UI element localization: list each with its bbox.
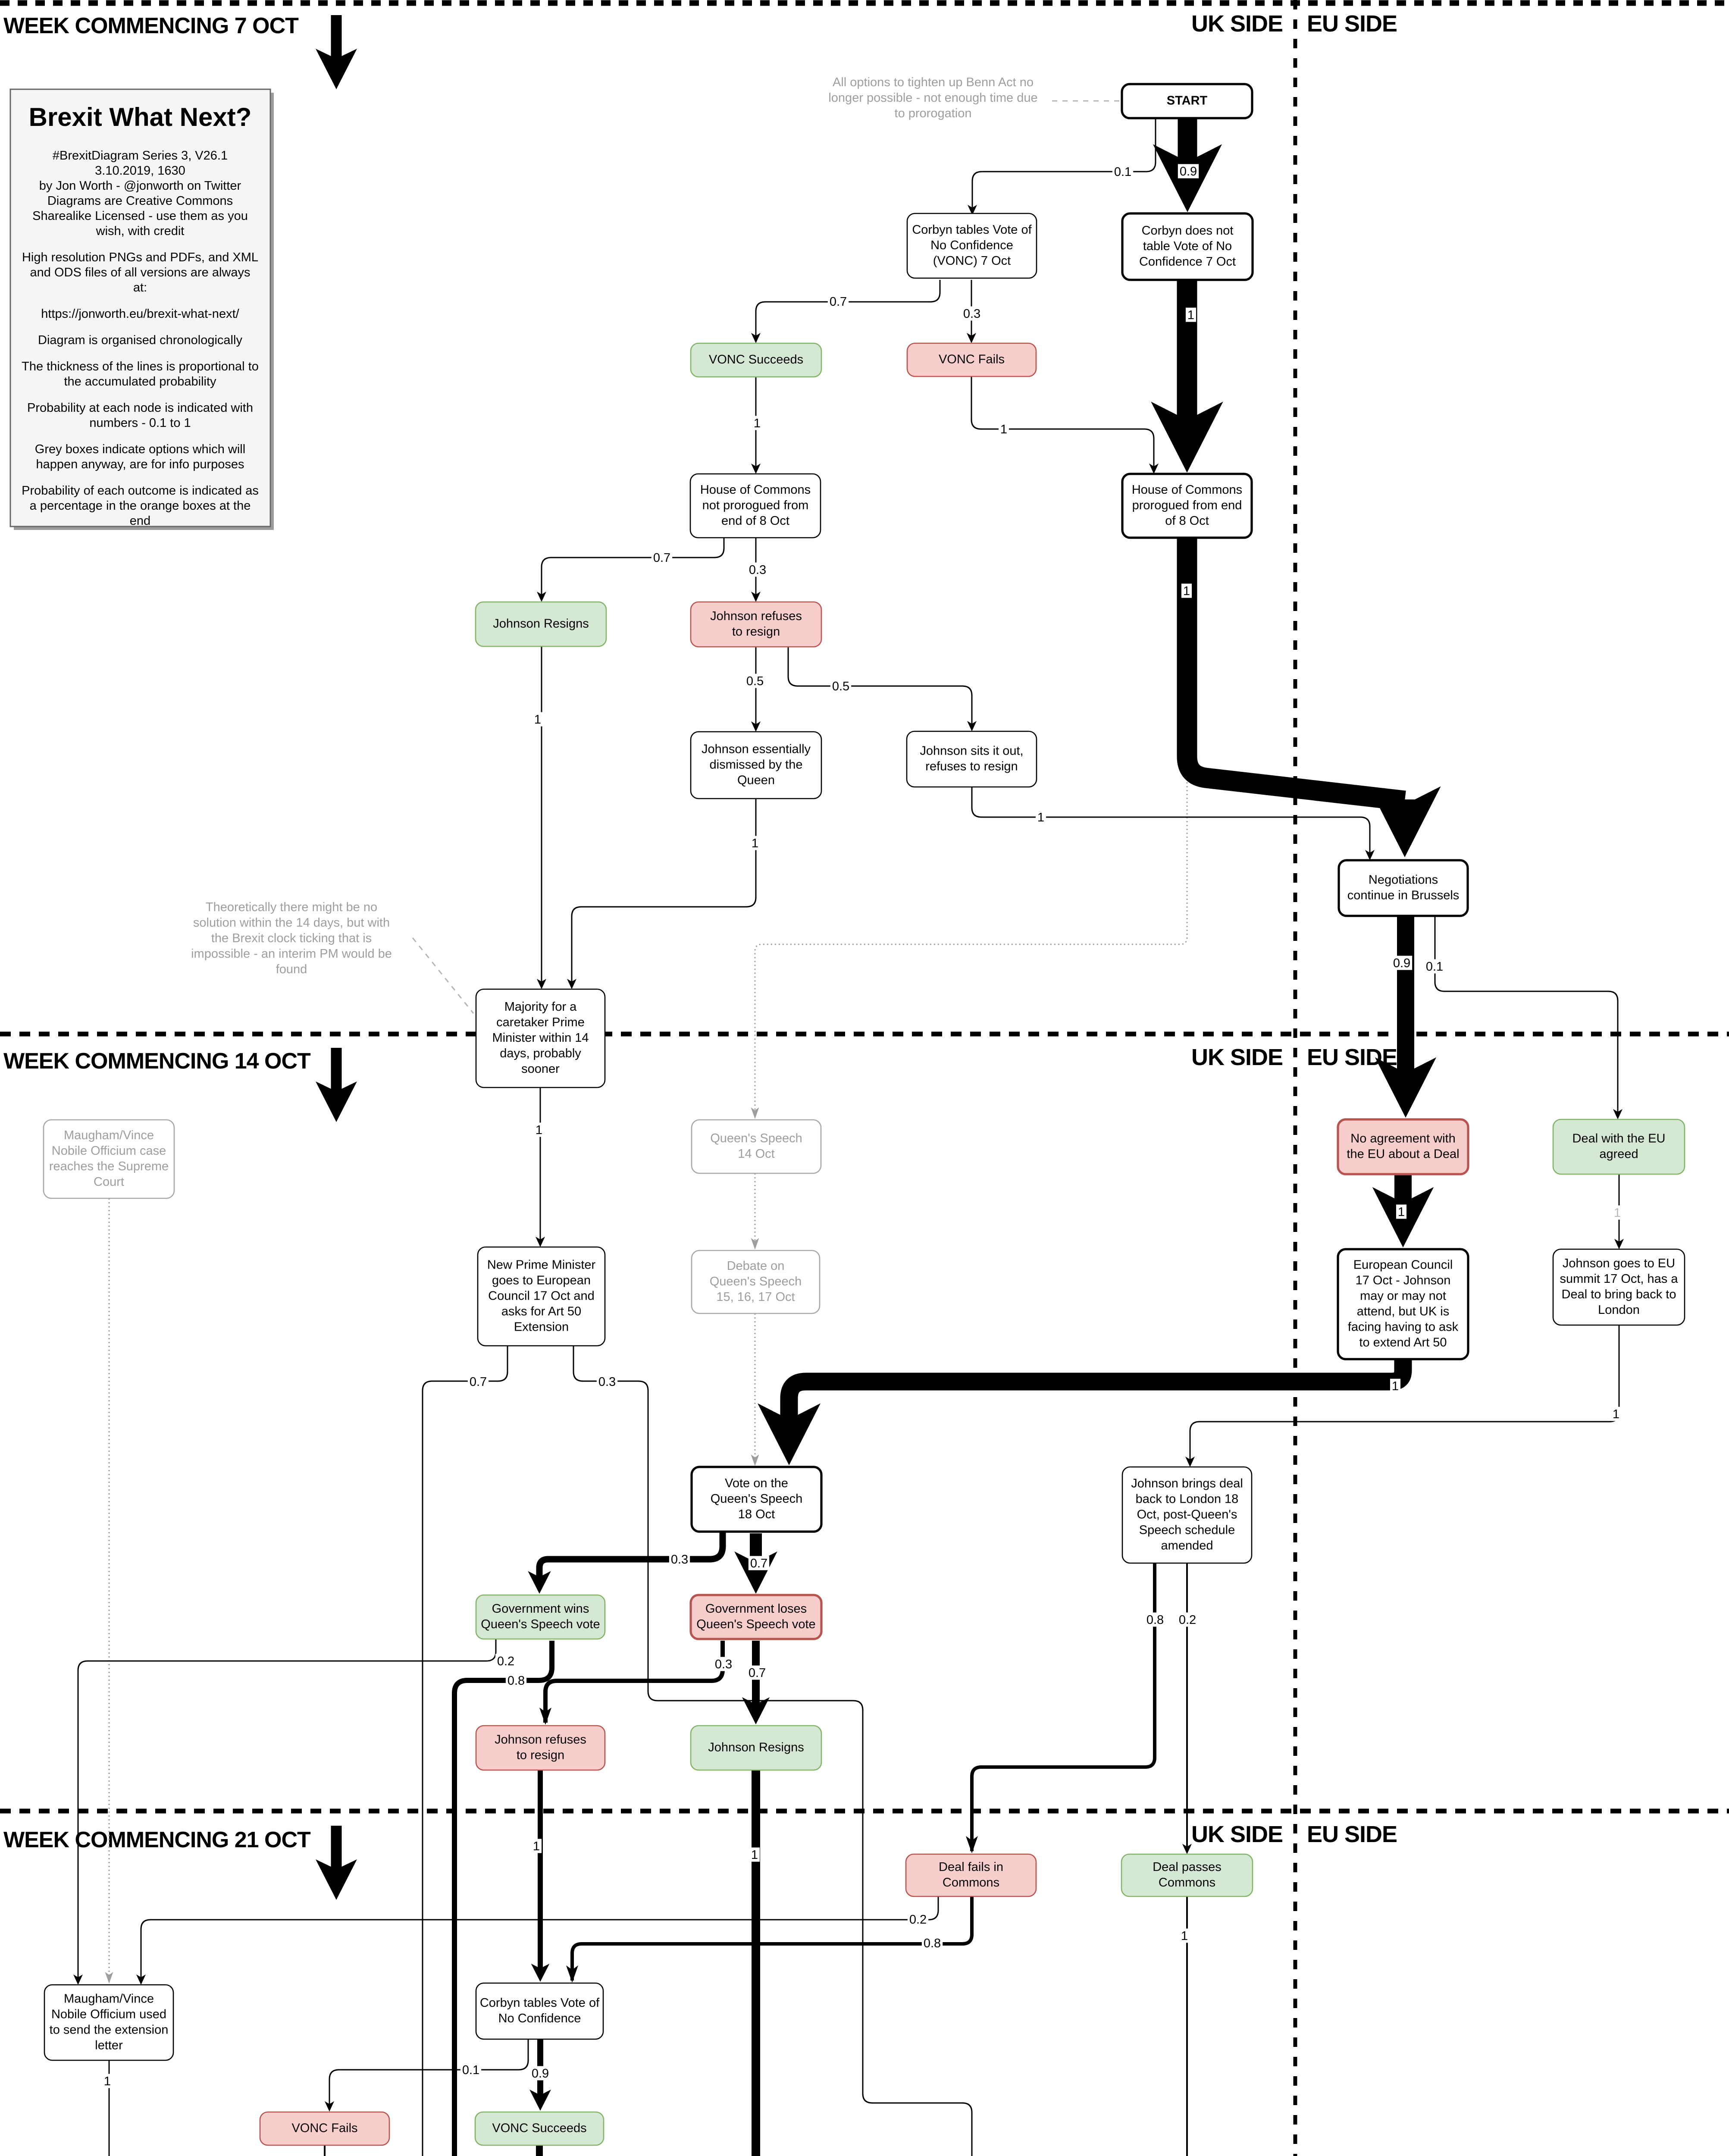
svg-text:at:: at: <box>133 281 147 295</box>
edge New PM -> Caretaker PM GE first (0.7) <box>423 1346 507 2156</box>
svg-text:Maugham/Vince: Maugham/Vince <box>64 1992 154 2006</box>
svg-text:VONC Succeeds: VONC Succeeds <box>709 353 803 367</box>
svg-text:Speech schedule: Speech schedule <box>1139 1523 1235 1537</box>
svg-text:0.7: 0.7 <box>470 1375 487 1389</box>
label 0.8 <box>506 1673 526 1688</box>
svg-text:UK SIDE: UK SIDE <box>1191 1044 1283 1070</box>
label 0.1 <box>1112 165 1133 179</box>
svg-text:1: 1 <box>1398 1205 1405 1219</box>
edge Corbyn tables 2 -> VONC Succeeds 2 (0.9) <box>529 2039 551 2111</box>
svg-text:sooner: sooner <box>521 1062 560 1076</box>
benn act dashed connector <box>1052 100 1121 102</box>
svg-text:amended: amended <box>1161 1539 1213 1553</box>
svg-text:happen anyway, are for info pu: happen anyway, are for info purposes <box>36 458 244 471</box>
node Debate on Queens Speech <box>692 1250 820 1313</box>
label 1 <box>1181 584 1192 599</box>
svg-text:goes to European: goes to European <box>492 1274 591 1288</box>
svg-text:WEEK COMMENCING 21 OCT: WEEK COMMENCING 21 OCT <box>3 1827 311 1852</box>
label 0.7 <box>747 1666 767 1680</box>
svg-text:prorogued from end: prorogued from end <box>1132 498 1242 512</box>
edge HoC prorogued -> Negotiations (1) <box>1187 538 1441 857</box>
big arrow 14 Oct <box>316 1048 357 1122</box>
node Johnson goes to EU summit <box>1553 1249 1685 1325</box>
svg-text:to extend Art 50: to extend Art 50 <box>1359 1336 1447 1350</box>
svg-text:0.2: 0.2 <box>497 1655 514 1668</box>
edge START -> Corbyn tables VONC (0.1) <box>972 118 1156 213</box>
edge Deal agreed -> Johnson goes to EU summit (1) <box>1619 1174 1620 1247</box>
svg-text:to prorogation: to prorogation <box>895 107 972 120</box>
svg-text:0.5: 0.5 <box>832 680 849 693</box>
svg-text:WEEK COMMENCING 7 OCT: WEEK COMMENCING 7 OCT <box>3 13 299 38</box>
svg-text:0.3: 0.3 <box>715 1658 732 1671</box>
node Corbyn tables VONC 7 Oct <box>907 213 1037 278</box>
node VONC Succeeds 1 <box>691 343 821 377</box>
edge VONC Fails -> HoC prorogued (1) <box>971 376 1154 472</box>
label 0.3 <box>669 1552 690 1567</box>
label 1 <box>1036 810 1046 825</box>
svg-text:and ODS files of all versions: and ODS files of all versions are always <box>30 266 251 279</box>
svg-text:Deal to bring back to: Deal to bring back to <box>1562 1288 1676 1301</box>
node Deal fails in Commons <box>906 1854 1036 1896</box>
svg-text:14 Oct: 14 Oct <box>738 1147 774 1161</box>
svg-text:1: 1 <box>533 1839 540 1853</box>
label 0.1 <box>1424 959 1445 974</box>
svg-text:0.1: 0.1 <box>1426 960 1443 974</box>
label 1 <box>102 2074 113 2089</box>
label 0.3 <box>597 1375 617 1389</box>
svg-text:impossible - an interim PM wou: impossible - an interim PM would be <box>191 947 392 961</box>
node Deal with the EU agreed <box>1553 1119 1685 1174</box>
svg-text:Government loses: Government loses <box>705 1602 807 1616</box>
svg-text:reaches the Supreme: reaches the Supreme <box>49 1159 169 1173</box>
label 0.2 <box>1177 1613 1198 1627</box>
svg-text:0.8: 0.8 <box>1146 1613 1164 1627</box>
node START <box>1122 84 1252 118</box>
edge dismissed by Queen -> Majority caretaker (1) <box>572 799 756 987</box>
edge VONC Succeeds 2 -> Caretaker admin (1) <box>527 2145 552 2156</box>
svg-text:numbers - 0.1 to 1: numbers - 0.1 to 1 <box>89 416 191 430</box>
node Government wins QS vote <box>476 1595 605 1639</box>
svg-text:Maugham/Vince: Maugham/Vince <box>64 1128 154 1142</box>
node VONC Fails 2 <box>260 2112 389 2145</box>
edge Government wins -> Maugham used (0.2) <box>78 1639 496 1983</box>
edge Johnson refuses -> dismissed by Queen (0.5) <box>755 647 757 730</box>
svg-text:the EU about a Deal: the EU about a Deal <box>1347 1147 1459 1161</box>
node VONC Succeeds 2 <box>475 2112 604 2145</box>
edge Negotiations -> No agreement (0.9) <box>1375 916 1436 1118</box>
svg-text:No Confidence: No Confidence <box>930 238 1013 252</box>
svg-text:Council 17 Oct and: Council 17 Oct and <box>488 1289 595 1303</box>
edge Johnson Resigns -> Majority caretaker (1) <box>541 646 542 987</box>
svg-text:letter: letter <box>95 2039 123 2053</box>
edge Johnson goes EU summit -> brings deal back (1) <box>1190 1325 1619 1465</box>
svg-text:Queen's Speech: Queen's Speech <box>711 1492 803 1506</box>
svg-text:Johnson goes to EU: Johnson goes to EU <box>1563 1257 1675 1270</box>
svg-text:0.9: 0.9 <box>532 2067 549 2081</box>
svg-text:House of Commons: House of Commons <box>700 483 811 497</box>
svg-text:18 Oct: 18 Oct <box>738 1507 775 1521</box>
svg-text:Extension: Extension <box>514 1320 569 1334</box>
svg-text:may or may not: may or may not <box>1360 1289 1446 1303</box>
svg-text:Debate on: Debate on <box>727 1259 785 1273</box>
svg-text:VONC Succeeds: VONC Succeeds <box>492 2122 586 2135</box>
label 1 <box>534 1123 544 1138</box>
edge HoC not prorogued -> Johnson refuses (0.3) <box>755 538 757 600</box>
svg-text:No agreement with: No agreement with <box>1350 1132 1455 1146</box>
svg-text:Brexit What Next?: Brexit What Next? <box>29 103 252 132</box>
svg-text:0.3: 0.3 <box>963 307 980 321</box>
svg-text:Theoretically there might be n: Theoretically there might be no <box>206 900 377 914</box>
label 1 <box>750 836 760 851</box>
note interim PM note <box>191 900 392 976</box>
svg-text:1: 1 <box>752 837 758 850</box>
svg-text:#BrexitDiagram Series 3, V26.1: #BrexitDiagram Series 3, V26.1 <box>53 149 228 163</box>
svg-text:VONC Fails: VONC Fails <box>291 2122 357 2135</box>
svg-text:1: 1 <box>754 417 761 430</box>
edge sits it out -> Negotiations (1) <box>972 787 1370 858</box>
svg-text:0.3: 0.3 <box>598 1375 616 1389</box>
svg-text:agreed: agreed <box>1599 1147 1638 1161</box>
svg-text:Queen's Speech vote: Queen's Speech vote <box>696 1617 815 1631</box>
svg-text:VONC Fails: VONC Fails <box>939 353 1005 367</box>
svg-text:Vote on the: Vote on the <box>725 1476 788 1490</box>
big arrow 21 Oct <box>316 1826 357 1900</box>
svg-text:The thickness of the lines is: The thickness of the lines is proportion… <box>22 360 259 373</box>
svg-text:1: 1 <box>104 2075 111 2088</box>
edge Deal fails -> Corbyn tables 2 (0.8) <box>572 1896 972 1981</box>
edge Vote QS -> Government loses (0.7) <box>734 1533 777 1594</box>
svg-text:START: START <box>1167 94 1208 108</box>
node Johnson refuses to resign 2 <box>476 1726 605 1770</box>
svg-text:UK SIDE: UK SIDE <box>1191 11 1283 37</box>
node Government loses QS vote <box>691 1595 821 1639</box>
svg-text:House of Commons: House of Commons <box>1132 483 1242 497</box>
svg-text:0.7: 0.7 <box>830 295 847 309</box>
svg-text:Corbyn does not: Corbyn does not <box>1142 224 1234 238</box>
svg-text:Johnson sits it out,: Johnson sits it out, <box>920 744 1023 758</box>
svg-text:0.7: 0.7 <box>653 551 670 565</box>
svg-text:solution within the 14 days, b: solution within the 14 days, but with <box>193 916 390 930</box>
dotted edge Maugham case -> Maugham used <box>109 1198 110 1981</box>
svg-text:1: 1 <box>1181 1929 1188 1943</box>
svg-text:0.5: 0.5 <box>746 674 764 688</box>
svg-text:1: 1 <box>1614 1206 1621 1220</box>
dotted edge House of Commons prorogued -> Queens Speech 14 Oct <box>755 538 1187 1117</box>
dotted edge Debate -> Vote on Queens Speech <box>755 1313 756 1464</box>
svg-text:caretaker Prime: caretaker Prime <box>496 1015 585 1029</box>
edge Deal passes -> Brexit with a Deal (1) <box>1186 1896 1188 2156</box>
label 1 <box>1390 1379 1400 1394</box>
edge European Council -> Vote on Queens Speech (1) <box>758 1359 1403 1465</box>
svg-text:Corbyn tables Vote of: Corbyn tables Vote of <box>912 223 1032 237</box>
svg-text:1: 1 <box>1183 584 1190 598</box>
svg-text:Corbyn tables Vote of: Corbyn tables Vote of <box>480 1996 600 2010</box>
edge Johnson brings deal -> Deal passes Commons (0.2) <box>1186 1563 1188 1852</box>
label 1 <box>531 1839 542 1854</box>
svg-text:UK SIDE: UK SIDE <box>1191 1821 1283 1847</box>
edge Johnson Resigns 2 -> Caretaker admin (1) <box>576 1770 756 2156</box>
label 0.8 <box>922 1936 943 1951</box>
node Maugham case reaches Supreme Court <box>44 1120 174 1198</box>
node Majority for caretaker PM <box>476 989 605 1087</box>
label 0.9 <box>1178 164 1199 179</box>
svg-text:Queen's Speech vote: Queen's Speech vote <box>481 1617 600 1631</box>
svg-text:1: 1 <box>1037 811 1044 824</box>
label 0.2 <box>495 1654 516 1669</box>
svg-text:longer possible - not enough t: longer possible - not enough time due <box>828 91 1037 105</box>
svg-text:the Brexit clock ticking that: the Brexit clock ticking that is <box>211 931 372 945</box>
node Johnson sits it out <box>907 731 1037 787</box>
svg-text:refuses to resign: refuses to resign <box>925 760 1018 774</box>
svg-text:Majority for a: Majority for a <box>504 1000 577 1014</box>
svg-text:0.1: 0.1 <box>1114 165 1131 179</box>
edge Negotiations -> Deal with EU agreed (0.1) <box>1435 916 1618 1117</box>
label 0.3 <box>713 1657 734 1672</box>
svg-text:European Council: European Council <box>1353 1258 1453 1272</box>
svg-text:Commons: Commons <box>943 1876 999 1890</box>
label 1 <box>1179 1929 1190 1943</box>
label 0.7 <box>468 1375 489 1389</box>
svg-text:not prorogued from: not prorogued from <box>702 498 809 512</box>
node New PM goes to European Council <box>478 1247 605 1346</box>
svg-text:1: 1 <box>1000 423 1007 436</box>
edge Vote QS -> Government wins (0.3) <box>528 1532 723 1594</box>
svg-text:Probability of each outcome is: Probability of each outcome is indicated… <box>22 484 259 498</box>
svg-text:High resolution PNGs and PDFs,: High resolution PNGs and PDFs, and XML <box>22 251 258 264</box>
label 1 <box>1612 1206 1623 1220</box>
svg-text:1: 1 <box>1392 1379 1399 1393</box>
svg-text:asks for Art 50: asks for Art 50 <box>501 1305 581 1319</box>
svg-text:1: 1 <box>534 713 541 727</box>
svg-text:EU SIDE: EU SIDE <box>1307 11 1397 37</box>
label 0.3 <box>962 307 982 321</box>
svg-text:facing having to ask: facing having to ask <box>1348 1320 1459 1334</box>
svg-text:0.2: 0.2 <box>909 1913 927 1927</box>
node Johnson Resigns 2 <box>691 1726 821 1770</box>
svg-text:0.1: 0.1 <box>462 2063 479 2077</box>
svg-text:1: 1 <box>751 1848 758 1862</box>
info box Brexit What Next? <box>10 89 274 530</box>
svg-text:to resign: to resign <box>517 1749 564 1762</box>
edge Majority caretaker -> New PM (1) <box>540 1087 541 1245</box>
edge New PM -> Caretaker PM Peoples Vote (0.3) <box>573 1346 972 2156</box>
label 0.8 <box>1145 1613 1165 1627</box>
svg-text:0.9: 0.9 <box>1393 956 1410 970</box>
svg-text:WEEK COMMENCING 14 OCT: WEEK COMMENCING 14 OCT <box>3 1049 311 1074</box>
svg-text:0.7: 0.7 <box>749 1666 766 1680</box>
svg-text:wish, with credit: wish, with credit <box>96 224 185 238</box>
edge Government loses -> Johnson refuses 2 (0.3) <box>545 1641 723 1723</box>
node Negotiations continue in Brussels <box>1339 860 1468 916</box>
note benn act note <box>828 75 1037 120</box>
svg-text:the accumulated probability: the accumulated probability <box>64 375 216 389</box>
svg-text:by Jon Worth - @jonworth on Tw: by Jon Worth - @jonworth on Twitter <box>39 179 241 193</box>
svg-text:dismissed by the: dismissed by the <box>710 758 803 772</box>
svg-text:Nobile Officium used: Nobile Officium used <box>51 2008 166 2021</box>
svg-text:attend, but UK is: attend, but UK is <box>1357 1305 1449 1319</box>
svg-text:Nobile Officium case: Nobile Officium case <box>52 1144 166 1158</box>
svg-text:1: 1 <box>536 1123 542 1137</box>
svg-text:Johnson Resigns: Johnson Resigns <box>493 617 589 631</box>
edge Johnson brings deal -> Deal fails (0.8) <box>972 1563 1155 1851</box>
node Johnson brings deal back to London <box>1122 1467 1252 1563</box>
edge VONC Succeeds -> HoC not prorogued (1) <box>755 377 757 472</box>
edge START -> Corbyn does not table (0.9) <box>1153 118 1222 212</box>
label 0.9 <box>1391 956 1412 971</box>
label 1 <box>1396 1205 1406 1219</box>
UK/EU dashed divider <box>1294 0 1297 2156</box>
label 0.5 <box>830 679 851 694</box>
svg-text:Diagrams are Creative Commons: Diagrams are Creative Commons <box>47 194 233 208</box>
svg-text:0.3: 0.3 <box>749 563 766 577</box>
svg-text:London: London <box>1598 1303 1640 1317</box>
label 1 <box>999 422 1009 437</box>
edge Corbyn tables -> VONC Succeeds (0.7) <box>756 280 940 341</box>
svg-text:Johnson brings deal: Johnson brings deal <box>1131 1477 1243 1491</box>
svg-text:table Vote of No: table Vote of No <box>1143 239 1232 253</box>
svg-text:0.2: 0.2 <box>1179 1613 1196 1627</box>
svg-text:Deal passes: Deal passes <box>1153 1860 1222 1874</box>
label 1 <box>752 416 762 431</box>
node No agreement with EU <box>1338 1119 1468 1174</box>
svg-text:17 Oct - Johnson: 17 Oct - Johnson <box>1356 1274 1451 1288</box>
label 1 <box>1611 1407 1621 1422</box>
week separator 14 Oct <box>0 1032 1729 1037</box>
edge Corbyn tables 2 -> VONC Fails 2 (0.1) <box>329 2039 528 2109</box>
svg-text:3.10.2019, 1630: 3.10.2019, 1630 <box>95 164 185 178</box>
node Vote on the Queens Speech 18 Oct <box>692 1467 821 1532</box>
svg-text:(VONC) 7 Oct: (VONC) 7 Oct <box>933 254 1011 268</box>
node Maugham used to send extension letter <box>44 1985 173 2060</box>
svg-text:Johnson essentially: Johnson essentially <box>702 743 811 756</box>
week separator 21 Oct <box>0 1809 1729 1814</box>
svg-text:Johnson Resigns: Johnson Resigns <box>708 1741 804 1755</box>
label 1 <box>749 1848 760 1862</box>
interim PM dashed connector <box>413 938 473 1013</box>
node Johnson Resigns 1 <box>476 602 606 646</box>
node HoC not prorogued <box>690 474 821 538</box>
node Johnson refuses to resign 1 <box>691 602 821 647</box>
svg-text:end: end <box>130 514 150 528</box>
svg-text:Government wins: Government wins <box>492 1602 589 1616</box>
edge No agreement -> European Council (1) <box>1372 1174 1434 1247</box>
svg-text:0.9: 0.9 <box>1180 165 1197 179</box>
label 0.7 <box>652 551 672 565</box>
big arrow 7 Oct <box>316 15 357 89</box>
label 0.2 <box>908 1912 928 1927</box>
node Corbyn does not table VONC <box>1122 213 1253 280</box>
svg-text:Minister within 14: Minister within 14 <box>492 1031 589 1045</box>
svg-text:Deal with the EU: Deal with the EU <box>1572 1132 1666 1146</box>
edge HoC not prorogued -> Johnson Resigns (0.7) <box>542 538 724 600</box>
svg-text:Diagram is organised chronolog: Diagram is organised chronologically <box>38 333 242 347</box>
svg-text:15, 16, 17 Oct: 15, 16, 17 Oct <box>716 1290 795 1304</box>
svg-text:1: 1 <box>1613 1407 1619 1421</box>
svg-text:All options to tighten up Benn: All options to tighten up Benn Act no <box>833 75 1034 89</box>
node European Council 17 Oct <box>1338 1249 1468 1359</box>
svg-text:to send the extension: to send the extension <box>50 2023 169 2037</box>
svg-text:Deal fails in: Deal fails in <box>939 1860 1003 1874</box>
svg-text:Grey boxes indicate options wh: Grey boxes indicate options which will <box>35 442 245 456</box>
edge Corbyn does not table -> HoC prorogued (1) <box>1151 280 1223 473</box>
svg-text:https://jonworth.eu/brexit-wha: https://jonworth.eu/brexit-what-next/ <box>41 307 239 321</box>
label 0.7 <box>828 295 849 309</box>
node Queens Speech 14 Oct <box>692 1120 821 1173</box>
svg-text:0.3: 0.3 <box>671 1553 688 1567</box>
svg-text:Johnson refuses: Johnson refuses <box>710 609 802 623</box>
svg-text:continue in Brussels: continue in Brussels <box>1347 889 1460 903</box>
node VONC Fails 1 <box>907 343 1036 376</box>
edge Johnson refuses -> sits it out (0.5) <box>788 647 972 729</box>
svg-text:Oct, post-Queen's: Oct, post-Queen's <box>1137 1508 1237 1522</box>
svg-text:summit 17 Oct, has a: summit 17 Oct, has a <box>1560 1272 1679 1286</box>
svg-text:EU SIDE: EU SIDE <box>1307 1821 1397 1847</box>
svg-text:Sharealike Licensed - use them: Sharealike Licensed - use them as you <box>32 209 248 223</box>
edge Government loses -> Johnson Resigns 2 (0.7) <box>742 1641 770 1724</box>
label 0.1 <box>460 2063 481 2078</box>
svg-text:Confidence 7 Oct: Confidence 7 Oct <box>1139 255 1236 269</box>
label 1 <box>1186 308 1196 323</box>
top dashed border <box>0 0 1729 6</box>
svg-text:found: found <box>276 962 307 976</box>
svg-text:Probability at each node is in: Probability at each node is indicated wi… <box>27 401 253 415</box>
svg-text:0.7: 0.7 <box>750 1557 767 1570</box>
edge Deal fails -> Maugham used (0.2) <box>141 1896 938 1983</box>
svg-text:Court: Court <box>94 1175 124 1189</box>
svg-text:Queen: Queen <box>737 774 775 787</box>
node Johnson dismissed by Queen <box>691 732 821 799</box>
svg-text:Queen's Speech: Queen's Speech <box>710 1275 802 1288</box>
svg-text:Negotiations: Negotiations <box>1369 873 1438 887</box>
svg-text:Queen's Speech: Queen's Speech <box>710 1131 802 1145</box>
node HoC prorogued <box>1122 474 1252 538</box>
svg-text:0.8: 0.8 <box>507 1674 525 1688</box>
label 1 <box>532 712 543 727</box>
svg-text:Commons: Commons <box>1159 1876 1215 1890</box>
svg-text:Johnson refuses: Johnson refuses <box>495 1733 586 1747</box>
edge Johnson refuses 2 -> Corbyn tables 2 (1) <box>531 1770 550 1982</box>
edge VONC Fails 2 -> Johnson survives (1) <box>324 2145 326 2156</box>
edge Corbyn tables -> VONC Fails (0.3) <box>971 280 972 341</box>
svg-text:end of 8 Oct: end of 8 Oct <box>721 514 789 528</box>
edge Government wins -> Johnson survives (0.8) <box>350 1641 552 2156</box>
svg-text:days, probably: days, probably <box>500 1047 581 1060</box>
svg-text:0.8: 0.8 <box>924 1937 941 1950</box>
label 0.9 <box>530 2066 551 2081</box>
dotted edge Queens Speech -> Debate <box>755 1173 756 1247</box>
edge Maugham used -> Extension demanded (1) <box>109 2060 294 2156</box>
node Corbyn tables VONC 2 <box>476 1983 603 2039</box>
svg-text:No Confidence: No Confidence <box>498 2012 581 2025</box>
svg-text:back to London 18: back to London 18 <box>1136 1492 1239 1506</box>
svg-text:of 8 Oct: of 8 Oct <box>1165 514 1209 528</box>
svg-text:1: 1 <box>1187 308 1194 322</box>
label 0.3 <box>747 563 768 577</box>
svg-text:New Prime Minister: New Prime Minister <box>487 1258 596 1272</box>
svg-text:a percentage in the orange box: a percentage in the orange boxes at the <box>30 499 251 513</box>
svg-text:to resign: to resign <box>732 625 780 639</box>
node Deal passes Commons <box>1121 1854 1253 1896</box>
label 0.7 <box>749 1556 769 1571</box>
label 0.5 <box>745 674 765 689</box>
